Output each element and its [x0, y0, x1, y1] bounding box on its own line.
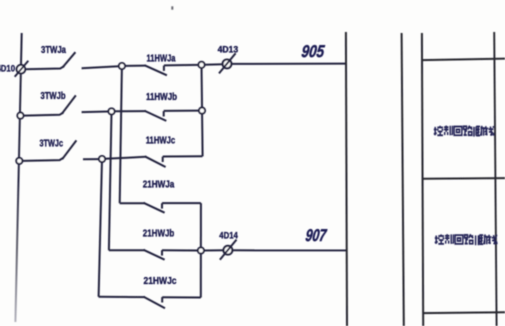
- node F: [198, 247, 204, 253]
- switch 3TWJc: [23, 140, 99, 161]
- wire: node B to terminal 4D13: [205, 63, 223, 66]
- node C: [108, 108, 114, 114]
- svg-text:3TWJc: 3TWJc: [40, 138, 64, 149]
- contact 21HWJb: [109, 249, 198, 259]
- svg-text:11HWJb: 11HWJb: [146, 92, 177, 103]
- wire 907: terminal 4D14 to border: [232, 249, 347, 251]
- node D: [199, 108, 205, 114]
- svg-text:11HWJc: 11HWJc: [146, 135, 176, 146]
- terminal 4D10: [15, 61, 29, 77]
- terminal 4D14: [220, 240, 237, 260]
- wire: vertical from node A down to 21HWJa: [120, 66, 122, 203]
- svg-text:4D14: 4D14: [219, 230, 238, 240]
- contact 11HWJa: [125, 65, 199, 76]
- svg-text:3TWJa: 3TWJa: [41, 45, 66, 56]
- wire 905: terminal 4D13 to border: [232, 63, 347, 65]
- table divider H2: [423, 177, 505, 180]
- switch 3TWJa: [25, 52, 119, 69]
- node B: [198, 62, 204, 68]
- wire: vertical from node E down to 21HWJc: [99, 159, 102, 297]
- contact 11HWJb: [115, 110, 200, 121]
- wire: vertical from node C down to 21HWJb: [109, 111, 112, 250]
- wire: left vertical bus 4D10: [15, 33, 21, 322]
- wire: vertical node B through node D to 11HWJc: [202, 65, 203, 157]
- table divider H1: [422, 59, 505, 61]
- contact 11HWJc: [105, 156, 202, 167]
- node A: [119, 63, 125, 69]
- border line V1: [346, 32, 347, 326]
- table text: 控制回路I断线: [434, 126, 494, 137]
- svg-text:11HWJa: 11HWJa: [147, 53, 176, 64]
- node E: [99, 156, 105, 162]
- svg-text:21HWJa: 21HWJa: [143, 180, 175, 191]
- contact 21HWJc: [99, 296, 201, 308]
- border line V3: [422, 33, 423, 326]
- border line V4: [494, 32, 496, 326]
- table divider H3: [423, 311, 505, 314]
- svg-text:4D10: 4D10: [0, 64, 15, 74]
- contact 21HWJa: [120, 202, 201, 212]
- border line V2: [402, 33, 404, 326]
- node: bus junction row c: [16, 158, 22, 164]
- svg-text:3TWJb: 3TWJb: [41, 91, 66, 102]
- paper speck top: [171, 6, 173, 9]
- terminal 4D13: [219, 53, 236, 73]
- svg-text:4D13: 4D13: [218, 44, 239, 54]
- node: bus junction row b: [17, 113, 23, 119]
- svg-text:905: 905: [301, 42, 326, 61]
- svg-text:907: 907: [305, 226, 329, 245]
- switch 3TWJb: [24, 95, 109, 115]
- wire: node F to terminal 4D14: [204, 249, 224, 251]
- wire: vertical 21HWJa right to 21HWJc right through node F: [200, 203, 202, 297]
- svg-text:21HWJc: 21HWJc: [144, 276, 177, 287]
- svg-text:21HWJb: 21HWJb: [143, 229, 175, 240]
- table text: 控制回路II断线: [435, 234, 497, 245]
